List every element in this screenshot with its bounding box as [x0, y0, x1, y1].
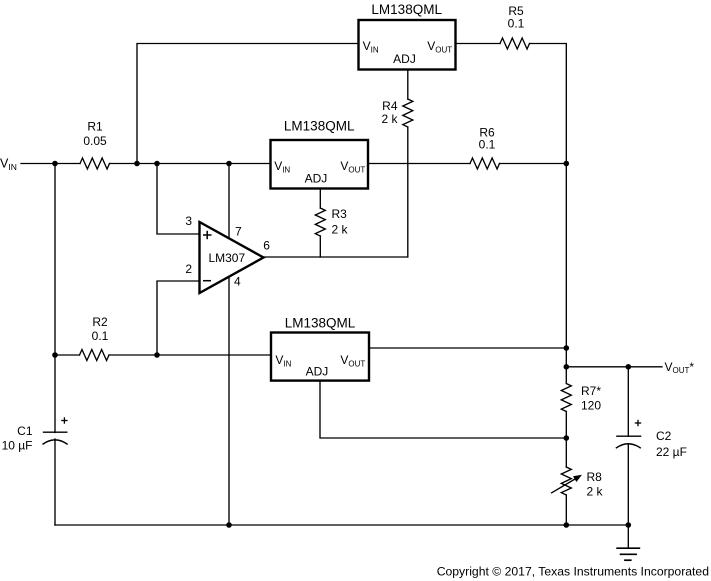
resistor R3: [315, 208, 325, 236]
svg-text:R3: R3: [332, 207, 348, 221]
op-amp minus mark: [203, 280, 211, 282]
svg-text:R4: R4: [382, 99, 398, 113]
wire top regulator VOUT to R5: [456, 43, 501, 45]
svg-text:C2: C2: [656, 429, 672, 443]
svg-text:7: 7: [235, 225, 242, 239]
svg-text:0.1: 0.1: [479, 138, 496, 152]
wire branch down to C1: [54, 164, 56, 433]
R8 wiper arrow: [551, 475, 582, 493]
wire R2 to bottom regulator VIN: [109, 354, 271, 356]
wire bottom regulator ADJ feedback: [320, 381, 566, 438]
svg-text:0.1: 0.1: [508, 17, 525, 31]
svg-text:R1: R1: [87, 120, 103, 134]
C2 plus sign: [635, 420, 641, 426]
svg-text:4: 4: [234, 275, 241, 289]
resistor R5: [500, 38, 530, 49]
svg-text:6: 6: [263, 239, 270, 253]
resistor R6: [470, 158, 500, 169]
svg-text:LM307: LM307: [208, 251, 245, 265]
wire R4 to output node: [407, 127, 409, 257]
svg-text:2 k: 2 k: [587, 485, 604, 499]
node VIN input rail left: [21, 163, 80, 165]
svg-text:3: 3: [185, 214, 192, 228]
op-amp plus mark: [203, 231, 212, 239]
wire top ADJ to R4: [407, 69, 409, 99]
wire R8 to bottom rail: [565, 495, 567, 525]
regulator U1 LM138QML top: [359, 20, 456, 70]
svg-text:Copyright © 2017, Texas Instru: Copyright © 2017, Texas Instruments Inco…: [437, 565, 709, 579]
wire bottom rail: [55, 524, 628, 526]
wire op-amp pin 4 down to bottom rail: [228, 277, 230, 526]
svg-text:0.05: 0.05: [83, 134, 107, 148]
wire op-amp pin 7: [228, 164, 230, 240]
C1 plus sign: [61, 417, 67, 423]
op-amp U4 LM307: [200, 222, 264, 293]
wire C1 bottom to ground rail: [54, 439, 56, 525]
wire R5 to right rail: [530, 44, 567, 384]
svg-text:C1: C1: [17, 424, 33, 438]
svg-text:LM138QML: LM138QML: [284, 119, 355, 134]
wire R2 rail left: [55, 354, 80, 356]
svg-text:LM138QML: LM138QML: [285, 316, 356, 331]
wire main rail to middle regulator VIN: [110, 163, 271, 165]
resistor R4: [403, 99, 413, 127]
resistor R1: [80, 158, 110, 169]
wire op-amp output: [264, 256, 408, 258]
svg-text:2: 2: [185, 262, 192, 276]
wire middle ADJ to R3: [319, 189, 321, 209]
svg-text:R7*: R7*: [581, 384, 601, 398]
wire middle regulator VOUT to R6: [368, 163, 470, 165]
regulator U2 LM138QML middle: [271, 140, 369, 189]
regulator U3 LM138QML bottom: [271, 333, 369, 381]
resistor R7: [561, 384, 571, 412]
capacitor C1: [43, 432, 68, 444]
wire R7 to R8: [565, 412, 567, 468]
svg-text:22 µF: 22 µF: [656, 445, 687, 459]
wire C2 bottom to rail: [627, 444, 629, 525]
wire up-left branch to top regulator VIN: [137, 44, 359, 164]
wire VOUT* row: [566, 366, 662, 368]
wire R3 to output node: [319, 236, 321, 257]
svg-text:ADJ: ADJ: [305, 172, 328, 186]
svg-text:R8: R8: [587, 470, 603, 484]
svg-text:ADJ: ADJ: [306, 365, 329, 379]
wire ground stub: [627, 525, 629, 548]
svg-text:2 k: 2 k: [332, 223, 349, 237]
wire C2 top branch: [627, 367, 629, 436]
capacitor C2: [616, 436, 642, 448]
wire R6 to right rail: [500, 163, 567, 165]
svg-text:ADJ: ADJ: [393, 52, 416, 66]
wire op-amp inverting input: [157, 281, 200, 355]
wire to op-amp noninverting input: [157, 164, 200, 235]
svg-text:120: 120: [581, 398, 601, 412]
ground: [616, 548, 640, 560]
svg-text:0.1: 0.1: [92, 329, 109, 343]
svg-text:LM138QML: LM138QML: [371, 2, 442, 17]
resistor R8 variable: [561, 467, 571, 495]
svg-text:10 µF: 10 µF: [2, 439, 33, 453]
svg-text:2 k: 2 k: [381, 112, 398, 126]
resistor R2: [80, 350, 110, 361]
wire bottom regulator VOUT to rail: [369, 347, 566, 349]
svg-text:R2: R2: [92, 315, 108, 329]
